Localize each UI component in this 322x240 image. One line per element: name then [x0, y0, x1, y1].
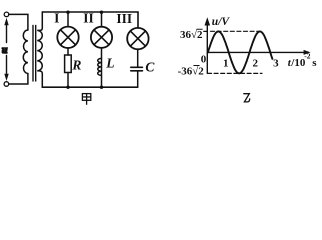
- svg-text:s: s: [312, 57, 317, 69]
- vinculum over 2: [197, 28, 202, 30]
- junction node branch I bottom: [66, 86, 69, 89]
- junction node branch I top: [66, 11, 69, 14]
- voltage arrow u down: [4, 56, 8, 82]
- y-axis: [205, 17, 211, 73]
- sine wave of u: [208, 31, 273, 73]
- svg-text:36√2: 36√2: [180, 29, 203, 41]
- label jia (甲): [82, 94, 90, 105]
- junction node branch II top: [100, 11, 103, 14]
- svg-text:R: R: [71, 58, 81, 73]
- svg-text:2: 2: [252, 57, 258, 69]
- dashed +amplitude line: [211, 30, 259, 32]
- svg-text:u: u: [2, 45, 8, 56]
- lamp III: [127, 28, 148, 49]
- wire lamp I to resistor: [67, 48, 69, 55]
- svg-text:-36√2: -36√2: [178, 65, 205, 77]
- lamp II: [91, 27, 112, 48]
- tick 36sqrt2: [204, 30, 208, 32]
- svg-text:C: C: [145, 59, 155, 74]
- wire branch I top: [67, 12, 69, 27]
- x-axis: [207, 50, 310, 55]
- wire branch II top: [101, 12, 103, 27]
- transformer core: [32, 26, 34, 82]
- svg-text:-2: -2: [304, 52, 310, 61]
- capacitor C1: [131, 67, 143, 71]
- wire branch III top (rail corner down): [137, 12, 139, 28]
- inductor L1: [98, 58, 102, 75]
- wire lamp III to capacitor: [137, 49, 139, 67]
- svg-text:II: II: [83, 11, 94, 26]
- svg-text:u/V: u/V: [212, 16, 231, 28]
- voltage arrow u up: [4, 18, 8, 43]
- svg-text:1: 1: [223, 57, 229, 69]
- junction node branch II bottom: [100, 86, 103, 89]
- label yi (乙): [243, 94, 249, 102]
- bottom rail wire: [42, 86, 137, 88]
- top rail wire: [42, 11, 138, 13]
- transformer primary coil: [23, 30, 28, 74]
- svg-text:I: I: [54, 11, 59, 26]
- lamp I: [57, 27, 78, 48]
- vinculum over 2 (negative): [194, 65, 199, 67]
- wire bottom terminal to primary: [9, 74, 28, 85]
- dashed -amplitude line: [208, 72, 263, 74]
- wire lamp II through inductor to bottom rail: [101, 48, 103, 87]
- svg-text:III: III: [116, 11, 132, 26]
- wire top terminal to primary: [9, 14, 28, 30]
- svg-text:0: 0: [201, 54, 207, 66]
- svg-text:3: 3: [273, 57, 279, 69]
- resistor R1: [65, 55, 72, 73]
- wire capacitor to bottom rail: [137, 71, 139, 87]
- label t/10^-2 s: [288, 52, 318, 69]
- transformer secondary coil: [37, 12, 42, 87]
- terminal bottom input: [4, 82, 9, 87]
- wire resistor to bottom rail: [67, 73, 69, 88]
- terminal top input: [4, 12, 9, 17]
- svg-text:L: L: [105, 56, 114, 71]
